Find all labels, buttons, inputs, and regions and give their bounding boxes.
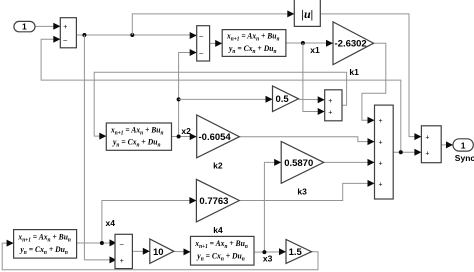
- sum block Sum1: [60, 18, 76, 48]
- svg-text:-0.6054: -0.6054: [199, 132, 232, 143]
- gain 0.5: [273, 86, 299, 112]
- state-space U4: [191, 236, 255, 265]
- svg-text:+: +: [120, 258, 124, 265]
- wire sum1 output to sum2 input1: [76, 32, 196, 39]
- wire sum2 output to state-space U1 input: [210, 40, 223, 47]
- state-space U3: [14, 230, 77, 259]
- svg-text:0.7763: 0.7763: [199, 196, 228, 207]
- svg-text:–: –: [120, 241, 124, 248]
- gain k4 value 0.7763: [196, 179, 239, 222]
- wire x2 vertical branch to sum2 input2: [179, 49, 197, 137]
- wire state-space U4 output x3 to gain G15 input: [254, 248, 286, 255]
- wire sum4 output to sum6 input2: [393, 149, 421, 156]
- sum block Sum3: [325, 90, 342, 121]
- svg-text:–: –: [199, 51, 203, 58]
- wire state-space U3 output x4 to sum5 minus input: [77, 239, 117, 246]
- wire sum4 output feedback to sum1 minus input: [41, 36, 401, 153]
- wire gain k2 output to sum4 input2: [239, 137, 374, 145]
- wire dot4 to gain 0.5 input: [179, 96, 273, 103]
- node dot8 sum4 output junction: [399, 150, 403, 154]
- wire gain k4 output to sum4 input4: [239, 180, 374, 201]
- svg-text:–: –: [199, 34, 203, 41]
- node dot6 x3 junction: [262, 250, 266, 254]
- svg-text:k1: k1: [349, 67, 359, 77]
- wire state-space U1 output x1 to gain k1 input: [286, 40, 333, 47]
- svg-text:x2: x2: [181, 126, 191, 136]
- svg-text:+: +: [63, 24, 67, 31]
- svg-text:+: +: [379, 118, 383, 125]
- svg-text:–: –: [63, 37, 67, 44]
- node dot3 x2 junction: [177, 135, 181, 139]
- svg-text:1: 1: [22, 22, 27, 32]
- wire gain G10 output to state-space U4 input: [174, 248, 191, 255]
- node dot5 x1 branch: [301, 41, 305, 45]
- svg-text:+: +: [379, 181, 383, 188]
- sum block Sum2: [197, 26, 210, 61]
- svg-text:x4: x4: [106, 218, 116, 228]
- wire dot1 branch down to sum5 plus input: [84, 35, 116, 263]
- svg-text:+: +: [425, 150, 429, 157]
- gain k2 value -0.6054: [197, 115, 240, 158]
- sum block Sum4: [375, 105, 394, 199]
- svg-text:1: 1: [461, 140, 466, 150]
- state-space U2: [106, 123, 171, 150]
- node dot1 on sum1 output: [82, 33, 86, 37]
- sum block Sum5: [115, 234, 132, 268]
- wire sum6 output to outport: [441, 141, 453, 148]
- wire state-space U2 output x2 to gain k2 input: [172, 133, 197, 140]
- wire sum5 output to gain G10 input: [132, 248, 149, 255]
- abs block |u|: [294, 0, 320, 26]
- gain k1 value -2.6302: [333, 22, 374, 65]
- svg-text:1.5: 1.5: [289, 247, 303, 258]
- wire x3 branch up to gain k3 input: [264, 159, 281, 252]
- wire abs output to sum6 input1: [320, 14, 421, 140]
- outport 1: [453, 139, 473, 151]
- svg-text:+: +: [379, 140, 383, 147]
- svg-text:-2.6302: -2.6302: [335, 39, 367, 50]
- svg-text:|u|: |u|: [301, 7, 313, 21]
- wire gain k3 output to sum4 input3: [324, 159, 375, 166]
- gain G10 value 10: [150, 239, 174, 263]
- svg-text:k4: k4: [213, 225, 223, 235]
- svg-text:+: +: [379, 160, 383, 167]
- svg-text:+: +: [425, 135, 429, 142]
- node dot2 on sum1 output: [130, 33, 134, 37]
- sum block Sum6: [421, 126, 441, 163]
- svg-text:Sync-sig: Sync-sig: [455, 153, 474, 163]
- svg-text:+: +: [328, 110, 332, 117]
- svg-text:k2: k2: [213, 161, 223, 171]
- wire dot5 branch down to sum3 input2: [303, 43, 325, 115]
- wire gain 0.5 output to sum3 input1: [299, 96, 325, 103]
- inport 1: [14, 21, 35, 31]
- svg-text:+: +: [328, 98, 332, 105]
- node dot7 x4 junction: [100, 241, 104, 245]
- wire dot2 branch up to abs input: [132, 10, 294, 35]
- gain G15 value 1.5: [286, 239, 312, 263]
- gain k3 value 0.5870: [281, 142, 324, 184]
- wire gain k1 output to sum4 input1: [362, 43, 386, 124]
- node dot4 x2 branch to gain 0.5: [177, 97, 181, 101]
- wire x4 branch up to gain k4 input: [102, 197, 196, 243]
- wire inport to sum1 plus input: [35, 23, 60, 30]
- svg-text:k3: k3: [297, 186, 307, 196]
- svg-text:x3: x3: [263, 254, 273, 264]
- svg-text:0.5870: 0.5870: [284, 158, 313, 169]
- svg-text:0.5: 0.5: [276, 94, 290, 105]
- state-space U1: [222, 30, 286, 57]
- svg-text:x1: x1: [310, 45, 320, 55]
- wire sum3 output feedback to state-space U2 input: [94, 72, 346, 139]
- svg-text:10: 10: [153, 247, 164, 258]
- wire gain G15 output feedback to state-space U3 input: [2, 240, 318, 270]
